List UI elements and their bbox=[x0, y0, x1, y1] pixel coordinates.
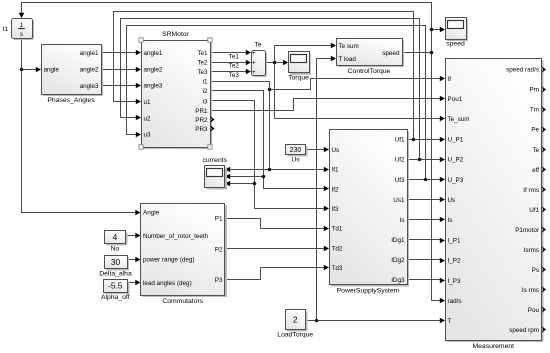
svg-text:lead angles (deg): lead angles (deg) bbox=[143, 280, 192, 287]
wire Te sum to Measurement Te_sum bbox=[275, 118, 443, 120]
wire speed feedback to I1 along top bbox=[22, 3, 432, 301]
constant Delta_alha value 30 bbox=[99, 256, 132, 278]
svg-text:Uf2: Uf2 bbox=[395, 157, 405, 164]
wire P1 to Td1 bbox=[226, 219, 326, 229]
svg-text:If: If bbox=[448, 76, 452, 83]
scope Torque bbox=[288, 52, 311, 82]
svg-text:2: 2 bbox=[293, 315, 298, 325]
junction Te_sum bbox=[273, 61, 277, 65]
svg-text:Te3: Te3 bbox=[229, 72, 240, 79]
svg-text:Us1: Us1 bbox=[393, 197, 405, 204]
wire i3 to PowerSupplySystem If3 bbox=[211, 101, 326, 209]
svg-text:-5.5: -5.5 bbox=[108, 281, 123, 291]
wire LoadTorque to Measurement T bbox=[306, 320, 443, 322]
wire i2 to currents scope in2 bbox=[229, 176, 264, 178]
wire Te sum up to ControlTorque bbox=[275, 46, 333, 119]
svg-text:Td1: Td1 bbox=[332, 226, 343, 233]
svg-text:Uf3: Uf3 bbox=[395, 177, 405, 184]
svg-text:Te1: Te1 bbox=[197, 50, 208, 57]
svg-text:Us: Us bbox=[332, 147, 340, 154]
svg-text:IDg3: IDg3 bbox=[391, 277, 405, 284]
wire i1 to Measurement If bbox=[270, 79, 443, 90]
wire I1 output down left side to Commutators Angle bbox=[22, 39, 138, 213]
svg-text:P1: P1 bbox=[215, 216, 223, 223]
svg-text:angle2: angle2 bbox=[80, 66, 99, 73]
svg-text:IDg2: IDg2 bbox=[391, 257, 405, 264]
svg-text:If rms: If rms bbox=[523, 187, 539, 194]
svg-text:Te: Te bbox=[254, 42, 261, 49]
svg-text:Is: Is bbox=[448, 217, 453, 224]
svg-text:speed: speed bbox=[382, 50, 400, 57]
block SRMotor bbox=[139, 31, 215, 149]
svg-text:Te2: Te2 bbox=[197, 60, 208, 67]
svg-text:Pm: Pm bbox=[530, 87, 539, 94]
svg-text:PowerSupplySystem: PowerSupplySystem bbox=[337, 288, 400, 295]
wire LoadTorque up to ControlTorque T load bbox=[317, 59, 333, 321]
svg-text:Us: Us bbox=[291, 157, 300, 164]
svg-text:30: 30 bbox=[111, 257, 121, 267]
svg-text:IDg1: IDg1 bbox=[391, 237, 405, 244]
block Commutators bbox=[141, 204, 228, 306]
svg-text:u1: u1 bbox=[144, 99, 152, 106]
wire ControlTorque speed output bbox=[403, 52, 432, 54]
svg-text:Td3: Td3 bbox=[332, 265, 343, 272]
wire Is to Measurement Is bbox=[408, 219, 443, 221]
junction I1-angle bbox=[20, 68, 24, 72]
svg-text:PR3: PR3 bbox=[195, 126, 208, 133]
svg-text:Uf1: Uf1 bbox=[529, 207, 539, 214]
svg-text:ControlTorque: ControlTorque bbox=[348, 68, 391, 75]
wire Uf2 feedback to u2 bbox=[121, 19, 420, 160]
constant Alpha_off value -5.5 bbox=[101, 280, 130, 302]
svg-text:Commutators: Commutators bbox=[162, 298, 203, 305]
svg-text:i1: i1 bbox=[203, 79, 208, 86]
arrow into speed scope bbox=[440, 27, 445, 33]
svg-text:Pou1: Pou1 bbox=[448, 96, 463, 103]
svg-text:Te: Te bbox=[532, 147, 539, 154]
block I1 integrator bbox=[2, 19, 34, 41]
wire Te2 to sum bbox=[211, 62, 248, 64]
svg-text:P1motor: P1motor bbox=[515, 227, 539, 234]
svg-text:Is: Is bbox=[400, 217, 405, 224]
svg-text:Te3: Te3 bbox=[197, 69, 208, 76]
svg-text:currents: currents bbox=[202, 157, 227, 164]
junction i2 bbox=[262, 175, 266, 179]
wire Te3 to sum bbox=[211, 71, 248, 73]
junction i1 b bbox=[268, 168, 272, 172]
constant LoadTorque value 2 bbox=[277, 310, 313, 339]
block Phases_Angles bbox=[42, 45, 104, 105]
svg-text:U_P2: U_P2 bbox=[448, 157, 464, 164]
svg-text:I1: I1 bbox=[2, 26, 8, 33]
svg-text:u2: u2 bbox=[144, 115, 152, 122]
wire i1 down bbox=[211, 82, 270, 170]
svg-text:4: 4 bbox=[113, 232, 118, 242]
wire Us constant to PowerSupplySystem Us bbox=[306, 149, 326, 151]
wire P2 to Td2 bbox=[226, 248, 326, 250]
svg-text:s: s bbox=[20, 31, 23, 38]
wire Uf3 feedback to u3 bbox=[127, 26, 426, 180]
svg-text:P3: P3 bbox=[215, 277, 223, 284]
wire angle1 bbox=[102, 52, 138, 54]
junction i1 a bbox=[268, 88, 272, 92]
svg-text:+: + bbox=[252, 50, 256, 57]
block ControlTorque bbox=[337, 39, 405, 76]
svg-text:PR1: PR1 bbox=[195, 108, 208, 115]
wire P3 to Td3 bbox=[226, 268, 326, 280]
svg-text:Tm: Tm bbox=[530, 107, 539, 114]
svg-text:Isrms: Isrms bbox=[524, 247, 539, 254]
arrow into Phases_Angles angle bbox=[36, 67, 41, 73]
scope currents bbox=[202, 157, 227, 190]
wire Us1 to Measurement Us bbox=[408, 199, 443, 201]
wire Te1 to sum bbox=[211, 52, 248, 54]
junction LoadTorque bbox=[315, 319, 319, 323]
svg-text:speed rpm: speed rpm bbox=[509, 327, 539, 334]
svg-text:If3: If3 bbox=[332, 206, 339, 213]
arrow into Measurement rad/s bbox=[440, 298, 445, 304]
svg-text:No: No bbox=[111, 246, 120, 253]
svg-text:angle: angle bbox=[44, 66, 60, 73]
svg-text:Phases_Angles: Phases_Angles bbox=[47, 97, 95, 104]
arrow into I1 bbox=[19, 13, 25, 18]
svg-text:Te_sum: Te_sum bbox=[448, 116, 470, 123]
svg-text:angle1: angle1 bbox=[80, 50, 99, 57]
svg-text:I_P1: I_P1 bbox=[448, 237, 461, 244]
svg-text:LoadTorque: LoadTorque bbox=[277, 332, 313, 339]
svg-text:i3: i3 bbox=[203, 98, 208, 105]
svg-text:+: + bbox=[252, 69, 256, 76]
svg-text:If2: If2 bbox=[332, 186, 339, 193]
svg-text:rad/s: rad/s bbox=[448, 298, 462, 305]
svg-text:I_P3: I_P3 bbox=[448, 278, 461, 285]
junction Uf3 bbox=[424, 178, 428, 182]
svg-text:If1: If1 bbox=[332, 167, 339, 174]
wire angle2 bbox=[102, 69, 138, 71]
svg-text:Measurement: Measurement bbox=[472, 343, 514, 350]
svg-text:i2: i2 bbox=[203, 88, 208, 95]
wire speed to scope branch bbox=[432, 29, 443, 31]
svg-text:Te sum: Te sum bbox=[339, 43, 359, 50]
svg-text:Is rms: Is rms bbox=[522, 287, 539, 294]
wire IDg1 to Measurement I_P1 bbox=[408, 239, 443, 241]
svg-text:T load: T load bbox=[339, 56, 357, 63]
svg-text:U_P1: U_P1 bbox=[448, 136, 464, 143]
wire PR1 to Measurement Pou1 bbox=[211, 99, 443, 111]
wire i1 to currents scope in1 bbox=[229, 169, 270, 171]
block PowerSupplySystem bbox=[330, 130, 410, 295]
wire Delta_alha constant to power range bbox=[128, 259, 138, 261]
svg-text:eff: eff bbox=[532, 167, 539, 174]
svg-text:Delta_alha: Delta_alha bbox=[99, 271, 132, 278]
junction speed-main bbox=[430, 51, 434, 55]
svg-text:power range (deg): power range (deg) bbox=[143, 256, 194, 263]
svg-text:Angle: Angle bbox=[143, 209, 160, 216]
wire IDg2 to Measurement I_P2 bbox=[408, 259, 443, 261]
wire branch to Phases_Angles angle bbox=[22, 69, 39, 71]
svg-text:+: + bbox=[252, 60, 256, 67]
arrow into Commutators Angle bbox=[135, 210, 140, 216]
wire IDg3 to Measurement I_P3 bbox=[408, 279, 443, 281]
svg-text:I_P2: I_P2 bbox=[448, 258, 461, 265]
svg-text:Uf1: Uf1 bbox=[395, 136, 405, 143]
wire speed to Measurement rad/s bbox=[432, 300, 443, 302]
svg-text:angle1: angle1 bbox=[144, 50, 163, 57]
junction Uf2 bbox=[418, 158, 422, 162]
svg-text:PR2: PR2 bbox=[195, 117, 208, 124]
svg-text:angle2: angle2 bbox=[144, 66, 163, 73]
wire Uf2 to Measurement U_P2 bbox=[408, 159, 443, 161]
svg-text:Te1: Te1 bbox=[229, 54, 240, 61]
svg-text:U_P3: U_P3 bbox=[448, 177, 464, 184]
block Measurement bbox=[446, 59, 547, 351]
block Te sum bbox=[252, 42, 268, 77]
svg-text:Te2: Te2 bbox=[229, 63, 240, 70]
scope speed bbox=[446, 18, 469, 48]
wire Uf3 to Measurement U_P3 bbox=[408, 179, 443, 181]
svg-text:Ps: Ps bbox=[532, 267, 539, 274]
wire No constant to Number_of_rotor_teeth bbox=[126, 235, 138, 237]
svg-text:angle3: angle3 bbox=[80, 83, 99, 90]
wire i3 to currents scope in3 bbox=[229, 183, 255, 185]
svg-text:speed: speed bbox=[446, 41, 465, 48]
wire sum output to Torque scope bbox=[266, 62, 285, 64]
wire Uf1 to Measurement U_P1 bbox=[408, 139, 443, 141]
svg-text:Td2: Td2 bbox=[332, 246, 343, 253]
svg-text:u3: u3 bbox=[144, 132, 152, 139]
svg-text:230: 230 bbox=[290, 147, 302, 154]
svg-text:Number_of_rotor_teeth: Number_of_rotor_teeth bbox=[143, 233, 209, 240]
svg-text:Pe: Pe bbox=[531, 127, 539, 134]
wire i2 to PowerSupplySystem If2 bbox=[211, 91, 326, 189]
junction i3 bbox=[253, 182, 257, 186]
svg-text:speed rad/s: speed rad/s bbox=[506, 67, 539, 74]
wire Alpha_off constant to lead angles bbox=[128, 282, 138, 284]
constant Us value 230 bbox=[286, 145, 308, 164]
svg-text:Torque: Torque bbox=[288, 75, 309, 82]
svg-text:Alpha_off: Alpha_off bbox=[101, 294, 130, 301]
junction Uf1 bbox=[412, 138, 416, 142]
svg-text:SRMotor: SRMotor bbox=[162, 31, 190, 38]
svg-text:Pou: Pou bbox=[528, 307, 540, 314]
svg-text:angle3: angle3 bbox=[144, 83, 163, 90]
wire angle3 bbox=[102, 85, 138, 87]
wire i1 to PowerSupplySystem If1 bbox=[270, 169, 326, 171]
svg-text:T: T bbox=[448, 318, 452, 325]
constant No value 4 bbox=[105, 231, 128, 253]
svg-text:P2: P2 bbox=[215, 246, 223, 253]
wire Uf1 feedback to u1 bbox=[114, 12, 414, 140]
svg-text:Us: Us bbox=[448, 197, 456, 204]
junction speed-scope bbox=[430, 28, 434, 32]
